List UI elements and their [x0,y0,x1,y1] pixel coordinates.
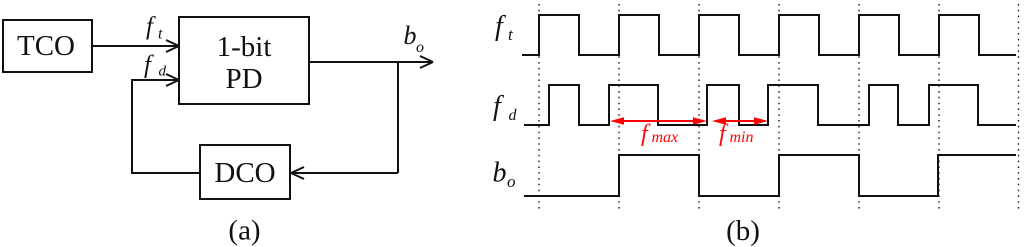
svg-text:o: o [416,39,424,56]
waveform f_d [524,85,1016,125]
svg-text:TCO: TCO [17,30,75,62]
wire feedback into DCO [292,172,398,174]
label f_d (b) [493,91,518,124]
svg-text:1-bit: 1-bit [217,31,272,63]
label f_d (a) [144,52,167,80]
block TCO [3,20,92,72]
dotted grid line 1 [538,4,540,211]
label f_max [641,121,678,147]
block U1 1-bit PD [179,17,309,104]
label f_t (b) [495,11,514,44]
wire PD output to arrow [309,61,432,63]
svg-text:o: o [507,172,516,191]
svg-text:PD: PD [225,63,262,95]
arrowhead output bo [420,56,433,68]
svg-text:(a): (a) [228,215,260,247]
dotted grid line 5 [858,4,860,211]
svg-text:b: b [404,21,417,50]
label b_o (b) [493,158,516,192]
svg-text:(b): (b) [726,215,760,247]
wire feedback vertical left [131,79,133,174]
arrowhead into PD pin fd [166,74,179,86]
svg-text:d: d [509,107,518,124]
svg-text:max: max [652,129,679,146]
svg-text:min: min [730,129,754,146]
arrowhead into PD pin ft [166,40,179,52]
svg-text:t: t [158,26,163,43]
arrowhead into DCO [291,167,304,179]
svg-text:d: d [159,64,167,80]
block DCO [200,145,290,199]
svg-text:DCO: DCO [214,157,275,189]
label b_o (a) [404,21,425,56]
dotted grid line 7 [1018,4,1020,211]
waveform f_t [522,15,1016,55]
dimension arrow f_min [712,117,768,124]
dotted grid line 2 [618,4,620,211]
dotted grid line 4 [778,4,780,211]
dotted grid line 6 [938,4,940,211]
dimension arrow f_max [610,117,707,124]
svg-text:b: b [493,158,507,189]
label f_t (a) [146,13,163,43]
dotted grid line 3 [698,4,700,211]
wire f_d horizontal into PD [132,79,177,81]
label f_min [719,121,754,147]
wire feedback vertical right [397,62,399,173]
waveform b_o [524,155,1016,196]
wire DCO output to left vertical [132,172,200,174]
wire TCO to PD [92,45,177,47]
